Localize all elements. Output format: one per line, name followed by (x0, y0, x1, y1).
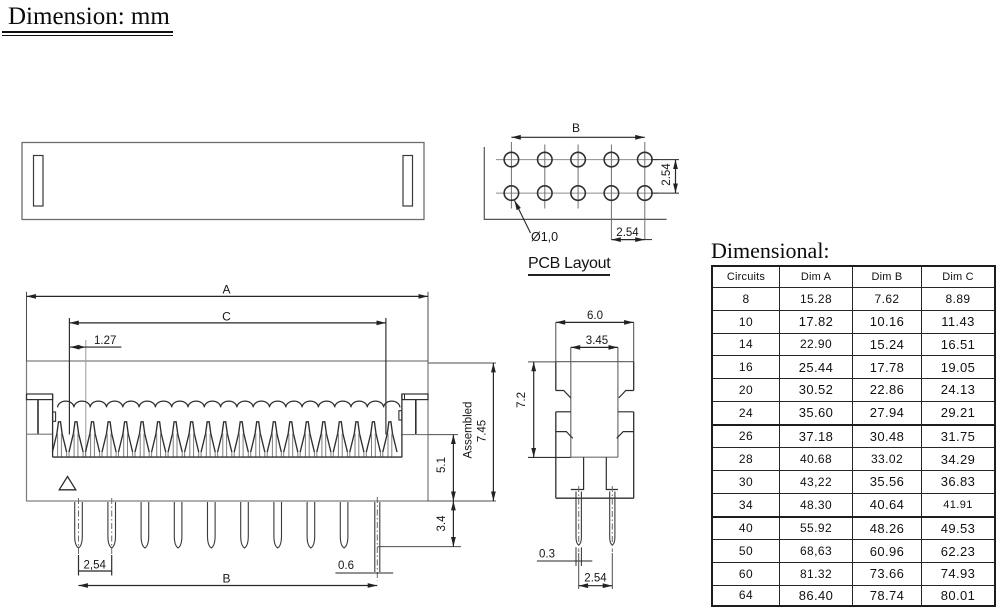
front pins (75, 502, 348, 548)
svg-text:2,54: 2,54 (84, 560, 107, 572)
dimension B (front) (79, 572, 378, 586)
extension body top right (428, 362, 496, 364)
extension body bottom right (428, 500, 496, 502)
svg-text:0.3: 0.3 (539, 549, 555, 561)
front left hook (53, 412, 56, 421)
title underline 2 (2, 35, 173, 36)
front right latch bar (402, 394, 428, 400)
page title "Dimension: mm" (8, 3, 170, 31)
svg-text:3.45: 3.45 (586, 335, 608, 347)
dimension 3.45 (571, 335, 618, 362)
front left latch stem (37, 400, 39, 435)
PCB Layout caption (528, 255, 610, 276)
front right inner wall (401, 394, 403, 457)
dimensional table (711, 265, 996, 607)
side outer walls lower (556, 412, 634, 498)
pcb holes row1 (504, 152, 652, 167)
dimension 5.1 (436, 435, 453, 501)
dimension 0.6 (335, 560, 393, 573)
dimension 3.4 (436, 501, 453, 547)
front right ledge (402, 434, 428, 436)
pcb holes row2 (504, 186, 652, 201)
svg-text:2.54: 2.54 (616, 227, 639, 239)
front right hook (399, 411, 402, 420)
dimension 2.54 vertical (pcb) (651, 160, 679, 194)
side body bottom edge (556, 497, 634, 499)
side lower chamfers (556, 432, 634, 439)
front cavity scallops (58, 401, 400, 407)
svg-text:3.4: 3.4 (436, 515, 448, 532)
side pin centerlines (579, 486, 613, 552)
extension 5.1 top (428, 434, 458, 436)
svg-text:Ø1,0: Ø1,0 (531, 230, 558, 244)
top view left slot (34, 156, 44, 207)
svg-text:2.54: 2.54 (661, 163, 673, 186)
extension 3.4 bottom (378, 546, 462, 548)
pcb column axis lines (511, 142, 644, 240)
dimension 2.54 bottom (pcb) (611, 227, 652, 240)
side core shoulder (571, 456, 618, 458)
polarity triangle marker (59, 477, 76, 490)
dimension 1.27 (70, 335, 121, 457)
front left inner wall (52, 394, 54, 457)
dimension A (27, 283, 429, 362)
side outer walls upper (556, 362, 634, 391)
svg-text:7.45: 7.45 (477, 420, 489, 442)
svg-text:C: C (222, 309, 231, 323)
front right latch stem (415, 400, 417, 435)
svg-text:0.6: 0.6 (338, 560, 354, 572)
front teeth slot lines (58, 434, 392, 458)
svg-text:B: B (222, 572, 230, 586)
svg-text:1.27: 1.27 (94, 335, 116, 347)
front right latch notch (404, 394, 406, 400)
front body outline (27, 361, 429, 501)
dimension 2.54 (front pins) (79, 555, 112, 576)
right pin (0.6) (375, 497, 380, 581)
front pin centerlines (79, 498, 112, 556)
front contact teeth zigzag (52, 422, 397, 452)
side inner bracket right (606, 457, 618, 489)
hole size callout Ø1,0 (515, 201, 559, 245)
dimension B (pcb) (511, 121, 644, 137)
dimension 6.0 (556, 310, 634, 362)
side core walls (571, 362, 618, 458)
pcb row1 axis line (496, 159, 658, 161)
side pins (576, 492, 615, 546)
pcb board edge (484, 147, 666, 219)
side body top edge (556, 361, 634, 363)
front left ledge (27, 433, 53, 435)
top view body outline (22, 143, 424, 220)
svg-text:B: B (572, 121, 580, 135)
dimension 2.54 (side) (579, 553, 613, 589)
dimension C (69, 309, 386, 434)
title underline 1 (2, 31, 173, 32)
svg-text:2.54: 2.54 (584, 573, 607, 585)
dimension 0.3 (537, 547, 592, 566)
svg-text:A: A (222, 283, 230, 297)
svg-text:5.1: 5.1 (436, 457, 448, 473)
table heading (711, 238, 830, 264)
svg-text:Assembled: Assembled (463, 402, 475, 459)
dimension assembled 7.45 (463, 363, 494, 501)
svg-text:7.2: 7.2 (516, 392, 528, 408)
front left latch bar (27, 394, 53, 400)
pcb row2 axis line (496, 192, 658, 194)
side upper notches (556, 391, 634, 412)
svg-text:6.0: 6.0 (587, 310, 603, 322)
dimension 7.2 (516, 362, 571, 458)
side inner bracket left (571, 457, 584, 489)
top view right slot (403, 156, 413, 207)
front teeth base line (53, 456, 403, 458)
